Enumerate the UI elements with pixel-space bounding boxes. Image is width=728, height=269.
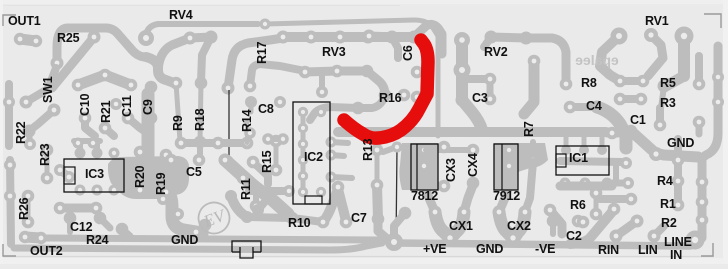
pad mid low c — [241, 211, 253, 223]
svg-text:C1: C1 — [630, 113, 646, 127]
wire RV2 to bus — [462, 100, 482, 130]
svg-text:LIN: LIN — [638, 243, 658, 257]
pad C7 apex — [332, 181, 345, 194]
pad gnd left b — [199, 219, 212, 232]
wire mid low curve — [231, 196, 247, 217]
pad row191 end — [283, 185, 295, 197]
pad Y1 common — [443, 231, 458, 246]
pad IC2 pin r1 — [316, 107, 326, 117]
pad OUT2 b — [35, 232, 47, 244]
svg-text:RV1: RV1 — [645, 14, 669, 28]
pad C8 left — [245, 96, 257, 108]
wire RV3 mid row — [305, 71, 367, 72]
wire RV1 mid drop — [648, 35, 663, 76]
wire R15 body — [274, 141, 279, 170]
pad IC3 top1 — [75, 148, 86, 159]
pad IC1 top1 — [561, 145, 571, 155]
svg-text:IN: IN — [670, 248, 682, 262]
wire C8 stub — [249, 102, 254, 112]
svg-text:GND: GND — [171, 233, 198, 247]
pad RV3 d — [362, 31, 375, 44]
wire pre-IC2 link — [268, 136, 283, 142]
svg-text:CX1: CX1 — [449, 219, 473, 233]
svg-text:R17: R17 — [255, 41, 269, 64]
wire C10 bottom — [85, 118, 95, 136]
wire row y143 — [181, 139, 247, 147]
wire RIN dumbbell — [616, 221, 637, 236]
svg-text:GND: GND — [476, 242, 503, 256]
pad R16 b — [352, 102, 365, 115]
pad C4 right — [591, 101, 604, 114]
pad Y2 common — [506, 231, 521, 246]
wire C9 bottom — [148, 118, 151, 126]
pad left low b — [4, 190, 16, 202]
pad IC1 top2 — [579, 145, 589, 155]
pad -VE top — [544, 204, 557, 217]
wire R25 route — [57, 28, 146, 63]
pad IC3 bot1 — [75, 185, 86, 196]
wire C4 pair — [570, 103, 597, 111]
wire IC1 bot link — [607, 180, 628, 187]
wire R4 vertical — [674, 139, 682, 207]
copper pour around 7812 — [399, 143, 438, 190]
pad C12 left — [64, 212, 77, 225]
pad 7812 pin2 — [419, 161, 430, 172]
pad RV2 d — [520, 32, 533, 45]
pad C12 right — [94, 212, 107, 225]
pad RV4 mid — [260, 19, 271, 30]
wire Y1 to CX4 — [464, 185, 473, 212]
IC2 notch — [305, 196, 322, 204]
svg-text:R9: R9 — [171, 115, 185, 131]
pad gnd-left — [190, 226, 203, 239]
pad C10 bottom — [79, 112, 92, 125]
wire R16 bend down — [367, 71, 385, 95]
svg-text:R4: R4 — [657, 174, 673, 188]
svg-text:R10: R10 — [288, 216, 311, 230]
pad R8 a — [614, 75, 627, 88]
pad IC3 bot2 — [92, 185, 103, 196]
svg-text:R13: R13 — [361, 138, 375, 161]
EV logo stamp — [194, 198, 234, 238]
pad line-in big — [686, 231, 705, 250]
svg-text:CX3: CX3 — [444, 158, 458, 182]
svg-text:R1: R1 — [660, 197, 676, 211]
pad right of RV2 — [560, 78, 573, 91]
pad C11 bottom — [122, 112, 135, 125]
wire wide mid diagonal — [225, 160, 288, 214]
pad C1 b — [635, 93, 648, 106]
svg-text:IC1: IC1 — [569, 151, 588, 165]
pad R23 top — [41, 144, 54, 157]
wire bottom bus lower right — [394, 241, 695, 246]
pad RV2 b — [386, 31, 399, 44]
wire +VE drop — [394, 213, 405, 238]
pad R10 left — [286, 212, 299, 225]
IC IC3 outline — [64, 159, 124, 192]
7912 inner line — [501, 144, 503, 190]
wire D1 diagonal — [570, 212, 612, 244]
pad LIN — [648, 230, 661, 243]
pad IC1 bot4 — [622, 177, 634, 189]
svg-text:CX4: CX4 — [466, 153, 480, 177]
pad C6 a — [411, 66, 424, 79]
pad RV4 big — [138, 30, 154, 46]
board corner mark bottom-right — [701, 243, 713, 256]
pad near C2 — [577, 216, 590, 229]
svg-text:RV4: RV4 — [169, 8, 193, 22]
svg-text:R8: R8 — [581, 76, 597, 90]
pad C3 top — [484, 73, 497, 86]
svg-text:+VE: +VE — [423, 242, 446, 256]
pad row160 c — [219, 154, 232, 167]
pad 7912 pin3 — [504, 177, 515, 188]
pad R6 top — [590, 187, 603, 200]
IC IC1 outline — [556, 146, 609, 175]
pad SW1 c — [23, 125, 36, 138]
wire right col upper — [695, 56, 703, 84]
wire SW1 feed — [52, 37, 94, 88]
wire OUT1 terminal — [20, 39, 36, 41]
wire R17 outer corner — [228, 38, 283, 88]
wire RV2 to right — [526, 38, 566, 84]
pad IC3 notch — [63, 171, 75, 183]
pad IC1 bot3 — [602, 178, 613, 189]
svg-text:OUT2: OUT2 — [30, 244, 63, 258]
svg-text:R5: R5 — [660, 76, 676, 90]
wire drop to y160 — [197, 142, 203, 160]
pad R20 bottom — [134, 184, 147, 197]
wire branch to top pads — [158, 38, 190, 74]
pad RV1 c — [675, 27, 694, 46]
wire RV4 route right — [265, 20, 414, 24]
pad R6 bottom — [590, 208, 603, 221]
wire Y2 up stub — [525, 162, 533, 212]
pad Y1 b — [458, 206, 471, 219]
pad SW1 a — [20, 96, 33, 109]
wire mid spare stub — [530, 142, 536, 160]
svg-text:7912: 7912 — [493, 189, 520, 203]
pad R4 b — [672, 175, 685, 188]
pad C9 top — [145, 81, 158, 94]
pad near R24 — [116, 223, 129, 236]
pad left low — [4, 159, 16, 171]
pad 7812 pin3 — [419, 177, 430, 188]
pad R21 bottom — [99, 122, 112, 135]
svg-text:C11: C11 — [120, 95, 134, 117]
svg-text:RV3: RV3 — [322, 45, 346, 59]
pad CX4 bottom — [467, 177, 480, 190]
wire C1 top pair — [620, 95, 641, 103]
wire right edge S — [702, 133, 718, 158]
pad IC2 right b — [326, 150, 337, 161]
pad row160 b — [193, 154, 206, 167]
pad Y1 a — [429, 206, 442, 219]
pad jumper mid bottom big — [385, 233, 403, 251]
svg-text:C4: C4 — [586, 99, 602, 113]
wire lower left link — [60, 204, 96, 213]
svg-text:IC2: IC2 — [304, 150, 323, 164]
pad mid low b — [252, 204, 264, 216]
pad right edge a — [712, 71, 724, 83]
pad R14 low — [244, 127, 256, 139]
wire IC3 top rail — [74, 138, 100, 144]
pad R5 top — [658, 80, 671, 93]
pad row143 c — [212, 137, 225, 150]
wire IC1 stub a — [564, 136, 569, 150]
wire IC1 stub b — [582, 136, 587, 150]
wire R18 body — [200, 83, 201, 142]
wire R23 top feed — [29, 131, 30, 144]
wire gnd left stub — [202, 225, 209, 234]
pad right edge b — [712, 96, 724, 108]
highlighted trace (red marker) — [344, 40, 428, 138]
wire CX3 bottom link — [426, 182, 444, 186]
pad R26 top — [22, 190, 35, 203]
pad RV3 mid b — [331, 65, 344, 78]
svg-text:GND: GND — [667, 136, 694, 150]
pad RV3 mid a — [299, 66, 312, 79]
pad RV1 b — [644, 28, 658, 42]
pad RV2 c — [485, 31, 498, 44]
svg-text:epalee: epalee — [575, 52, 619, 68]
wire Y1 to 7812 — [424, 184, 435, 212]
pad SW1 top — [88, 31, 101, 44]
7812 inner line — [416, 144, 418, 190]
pad mid cluster — [110, 98, 122, 110]
pad Y2 b — [519, 206, 532, 219]
svg-text:R25: R25 — [57, 31, 80, 45]
svg-text:CX2: CX2 — [507, 219, 531, 233]
svg-text:7812: 7812 — [411, 189, 438, 203]
wire R11 drop — [253, 191, 259, 206]
pad R15 bottom — [270, 164, 283, 177]
pad R4 a — [672, 154, 685, 167]
pad IC2 pin r2 — [316, 187, 326, 197]
wire R5 body — [661, 86, 664, 108]
pad jumper left bottom — [223, 156, 234, 167]
svg-text:R22: R22 — [14, 121, 28, 144]
pad bus a — [606, 127, 619, 140]
svg-text:R15: R15 — [260, 150, 274, 173]
pad R26 bottom — [22, 216, 35, 229]
pad Y2 a — [493, 206, 506, 219]
pad R17 inner — [244, 80, 257, 93]
jumper link wire (vertical, left) — [228, 90, 230, 160]
pad IC3 feed b — [88, 138, 99, 149]
svg-text:C12: C12 — [70, 220, 93, 234]
wire R13 column to bus — [378, 219, 386, 238]
pad diag a end — [237, 172, 250, 185]
svg-text:R14: R14 — [240, 109, 254, 132]
svg-text:R20: R20 — [133, 165, 147, 188]
wire R16 hook — [358, 95, 385, 108]
svg-text:IC3: IC3 — [85, 167, 104, 181]
pad C11 top — [125, 79, 138, 92]
wire left low vertical — [10, 160, 11, 244]
pad R17 outer — [222, 82, 235, 95]
svg-text:RV2: RV2 — [484, 45, 508, 59]
wire SW1 a — [26, 68, 56, 102]
pad RV3 e — [408, 31, 421, 44]
pad R23 feed — [24, 138, 36, 150]
pad RV3 mid c — [361, 65, 374, 78]
wire Y1 left leg — [435, 212, 450, 238]
pad C2 right — [572, 215, 585, 228]
pad mid spare — [527, 154, 539, 166]
wire LIN stub — [654, 226, 664, 236]
wire R9 body — [176, 83, 180, 141]
pad CX4 top — [467, 144, 480, 157]
pad CX3 top — [438, 141, 451, 154]
pad IC2 pin1 — [298, 107, 308, 117]
wire C7 blob left — [323, 189, 338, 222]
wire CX3-CX4 top link — [426, 147, 473, 153]
pad C3 bottom — [484, 93, 497, 106]
svg-text:R11: R11 — [239, 178, 253, 200]
wire C2 drop — [550, 221, 556, 234]
pad IC3 bot3 — [109, 185, 120, 196]
pad IC1 top3 — [597, 145, 607, 155]
wire R23 body — [45, 150, 50, 178]
pad jumper mid top — [392, 142, 403, 153]
pad OUT2 a — [19, 231, 31, 243]
pad 7812 pin1 — [419, 145, 430, 156]
wire R3 vert — [656, 108, 664, 125]
pad RV2 top — [454, 32, 470, 48]
wire jumper top stub — [383, 148, 394, 152]
pad R11 bottom — [250, 200, 263, 213]
pad RV3 b — [305, 31, 318, 44]
svg-text:C2: C2 — [566, 229, 582, 243]
pad CX3 bottom — [438, 180, 451, 193]
IC3 notch — [64, 167, 75, 184]
pad IC2 pin3 — [298, 139, 308, 149]
pad top pair b — [205, 31, 218, 44]
pad top pair a — [184, 32, 197, 45]
svg-text:R16: R16 — [379, 91, 402, 105]
wire R16 into IC2 — [310, 107, 358, 120]
pad IC2 pin6 — [298, 187, 308, 197]
wire RV1 left drop — [600, 36, 620, 81]
pad line-in 1 — [696, 176, 709, 189]
pad band a — [157, 193, 169, 205]
wire R25 route drop — [146, 57, 174, 83]
pad band b — [172, 208, 184, 220]
pad RV3 a — [277, 31, 290, 44]
pad C8 right — [274, 96, 286, 108]
wire through IC1 — [560, 161, 622, 162]
svg-text:SW1: SW1 — [41, 76, 55, 103]
pad IC1 bot1 — [560, 178, 571, 189]
pad R7 top — [528, 55, 541, 68]
wire RV4 route left — [146, 24, 258, 38]
svg-text:C9: C9 — [141, 99, 155, 115]
wire C6 vertical drop — [414, 20, 438, 136]
wire row y191 — [249, 187, 289, 195]
pad line-in 3 — [696, 214, 709, 227]
pad 7912 pin2 — [504, 161, 515, 172]
pad IC3 left — [54, 164, 66, 176]
wire below R13 — [377, 185, 378, 219]
board corner mark top-left — [3, 15, 16, 26]
pad C1 a — [614, 93, 627, 106]
pad IC2 right c — [326, 172, 337, 183]
pad row160 d — [247, 156, 260, 169]
wire mid low b stub — [258, 198, 268, 210]
wire C3 body — [487, 79, 494, 99]
wire RV2 b drop — [392, 37, 398, 58]
pad R15 top — [270, 135, 283, 148]
pad R6 right — [625, 193, 638, 206]
pad near +VE — [399, 207, 412, 220]
svg-text:C3: C3 — [472, 91, 488, 105]
wire IC2 right stub c — [331, 177, 352, 178]
wire IC1 bottom band — [560, 182, 612, 191]
wire IC1 stub c — [600, 136, 605, 150]
pad RV2 a — [363, 30, 376, 43]
wire Y2 right leg — [514, 212, 525, 238]
pad C7 left — [317, 216, 330, 229]
wire R6 row — [600, 195, 631, 203]
jumper link wire (vertical, mid) — [396, 147, 397, 244]
wire -VE drop — [550, 210, 562, 234]
board corner mark bottom-left — [3, 244, 16, 256]
wire Y2 to 7912 — [499, 184, 509, 212]
wire Y1 right leg — [451, 212, 464, 238]
pad bus diag — [649, 147, 663, 161]
pad RV3 c — [334, 31, 347, 44]
wire IC2 right stub b — [331, 155, 344, 156]
pad IC2 pin5 — [298, 171, 308, 181]
pad R4 c — [672, 199, 685, 212]
wire left edge vertical — [5, 84, 13, 146]
pad RV2 bottom — [456, 94, 469, 107]
pad row160 a — [165, 154, 178, 167]
pad IC3 top2 — [92, 148, 103, 159]
wire C3 link — [466, 75, 490, 83]
svg-text:C6: C6 — [401, 45, 415, 61]
pad line-in 2 — [696, 196, 709, 209]
pad IC1 right out — [620, 157, 632, 169]
pad R25 bottom — [51, 57, 64, 70]
wire R13 body — [375, 150, 380, 185]
wire C10-R21 top — [78, 75, 131, 85]
wire top pad link — [190, 37, 211, 38]
wire IC2 internal — [301, 112, 306, 192]
wire RV3 top bus — [283, 32, 414, 42]
pad lower left b — [90, 202, 103, 215]
svg-text:R24: R24 — [86, 233, 109, 247]
pad IC1 bot2 — [580, 178, 591, 189]
svg-text:R26: R26 — [17, 197, 31, 220]
wire RV1 right vertical — [678, 36, 690, 76]
pad row143 a — [175, 137, 188, 150]
wire right col lower — [698, 158, 707, 238]
pad R16 a — [379, 89, 392, 102]
pad IC2 top — [316, 86, 328, 98]
copper pour around 7912 — [494, 143, 548, 190]
IC IC2 outline — [293, 102, 330, 204]
wire R21 bottom — [105, 128, 114, 136]
wire mid bus y132 — [338, 131, 631, 133]
wire R8 pair — [620, 77, 643, 85]
pad R21 top — [99, 69, 112, 82]
wire IC2 top stub — [319, 71, 325, 92]
wire SW1 b — [29, 110, 54, 131]
wire R10 link — [292, 218, 323, 222]
wire wide left band — [148, 94, 196, 232]
